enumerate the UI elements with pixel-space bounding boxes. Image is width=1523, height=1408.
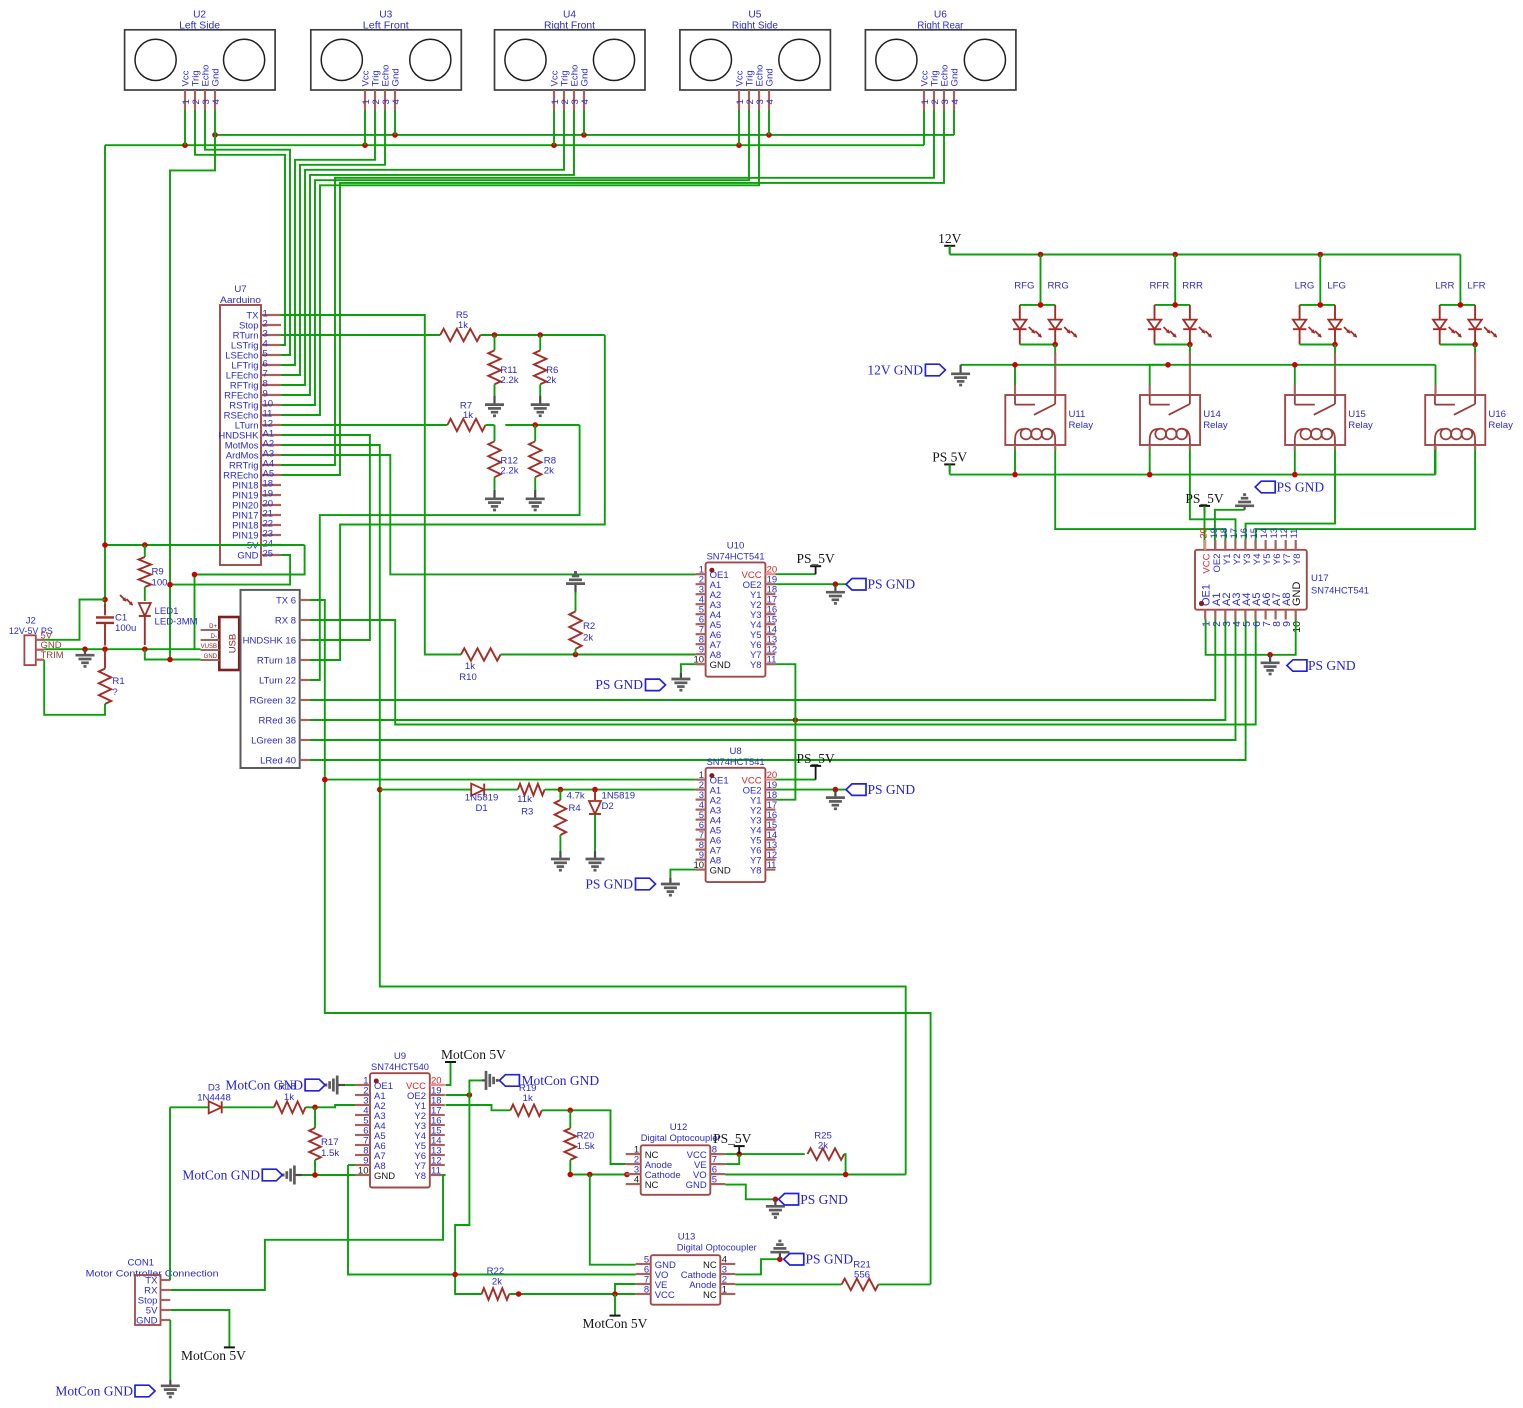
LED LFG [1328,305,1357,345]
ground below R6 [531,396,550,416]
junction LED bottom U11 [1052,342,1058,348]
wire U6 Trig->RRTrig [281,110,934,465]
svg-text:GND: GND [686,1180,707,1191]
wire R21 right to riser [878,1283,930,1285]
diode D2 1N5819 [589,790,635,851]
flag PS GND at U13 [784,1252,854,1267]
wire R7 right lead down to R12 [486,425,495,441]
wire LED top bar U11 [1020,304,1055,306]
svg-text:U16: U16 [1488,409,1506,420]
resistor R8 2k [529,425,556,490]
svg-text:1N4448: 1N4448 [197,1093,231,1104]
LED LFR [1468,305,1497,345]
LED pair labels RFR/RRR [1149,281,1203,292]
junction U10.OE2 [833,581,839,587]
LED pair labels LRR/LFR [1435,281,1485,292]
supply MotCon 5V at U13 [583,1316,648,1332]
svg-text:C1: C1 [115,613,127,624]
svg-text:PS_5V: PS_5V [1185,491,1224,506]
svg-text:10: 10 [358,1166,369,1177]
wire TX6 chain to R21 riser [310,600,931,1284]
wire U15 coil left pin to PS5V rail [1294,445,1296,475]
flag PS GND at U10.OE2 [846,577,915,592]
wire U13.VCC row R22 [455,1293,482,1295]
svg-text:Gnd: Gnd [580,68,591,86]
svg-text:2.2k: 2.2k [500,375,518,386]
junction R17 bottom [312,1172,318,1178]
resistor R25 2k [808,1131,845,1160]
ground below R11 [485,396,504,416]
junction U8.OE2 [833,787,839,793]
junction dots Vcc rail [182,142,742,148]
svg-text:RX 8: RX 8 [275,616,296,627]
wire U14 switch pin to 12VGND [1150,365,1168,395]
wire PS 5V rail [950,445,1436,475]
junction U9.OE2 [467,1092,473,1098]
svg-text:25: 25 [263,549,274,560]
svg-text:D+: D+ [209,624,217,630]
svg-text:8: 8 [644,1285,649,1296]
wire U4 Gnd drop [583,110,585,135]
wire LED bottom bar U15 [1300,344,1335,346]
svg-text:U11: U11 [1069,409,1086,420]
wire U3 Vcc drop [364,110,366,145]
ground below CON1.GND [161,1380,180,1397]
wire U7.GND to sensor-gnd column [170,555,290,585]
svg-text:100u: 100u [115,623,136,634]
wire Vcc rail sensors [105,144,924,146]
svg-text:LED-3MM: LED-3MM [155,617,198,628]
svg-text:U4: U4 [563,10,576,21]
svg-text:D-: D- [211,634,217,640]
wire U7.MotMos chain to U12 net [281,445,906,1175]
resistor R21 556 [842,1259,879,1290]
svg-text:1k: 1k [523,1093,533,1104]
svg-text:GND: GND [237,551,258,562]
svg-text:NC: NC [703,1290,717,1301]
junction R25/VO [843,1172,849,1178]
wire LED top bar U15 [1300,304,1335,306]
wire usb gnd row [145,649,201,659]
junction LED bottom U15 [1332,342,1338,348]
svg-text:U12: U12 [670,1122,688,1133]
flag MotCon GND at CON1 [55,1384,155,1399]
junction R17 top [312,1105,318,1111]
junction U14 gnd rail [1165,362,1171,368]
wire U10.OE2 to gnd [775,583,846,585]
svg-text:NC: NC [645,1180,659,1191]
wire J2.5V jog [44,600,105,640]
svg-text:MotCon 5V: MotCon 5V [441,1047,506,1062]
junction U17 gnd [1267,652,1273,658]
svg-text:U5: U5 [748,10,761,21]
diode D3 1N4448 [197,1083,231,1114]
junction GND column [167,582,173,588]
junction U15 gnd rail [1292,362,1298,368]
wire 12V rail [950,246,1461,255]
svg-text:R18: R18 [278,1082,296,1093]
svg-text:Relay: Relay [1488,420,1513,431]
resistor R19 1k [510,1083,542,1116]
wire U5 Echo->RSEcho [281,110,759,415]
svg-text:CON1: CON1 [127,1258,154,1269]
wire U9.OE2 net [446,1094,470,1096]
svg-text:PS GND: PS GND [1308,658,1356,673]
sideways ground U9.OE1 [326,1076,345,1095]
flag PS GND below U17 [1287,658,1356,673]
resistor R20 1.5k [565,1110,595,1174]
svg-text:4: 4 [950,99,961,105]
junction sensor-gnd column [167,657,173,663]
svg-text:2.2k: 2.2k [500,466,518,477]
svg-text:PS GND: PS GND [868,782,916,797]
svg-text:R4: R4 [569,803,582,814]
wire U6 Echo->RREcho [281,110,944,475]
wire U9.A8 down to U13.VO row [348,1165,636,1275]
svg-text:LRG: LRG [1295,281,1315,292]
wire GND row J2 [44,648,200,650]
svg-text:U7: U7 [234,284,246,295]
wire LED cathode to relay U16 [1474,345,1476,396]
svg-text:D2: D2 [602,801,614,812]
svg-text:D1: D1 [475,803,487,814]
wire U5 Gnd drop [768,110,770,135]
wire U12.VCC to PS_5V [725,1153,805,1155]
wire U9.GND row [302,1174,355,1176]
wire U8.OE2 right [775,789,846,791]
junction PS5V rail [1012,472,1297,478]
IC U9 SN74HCT540 [355,1051,445,1187]
junction MotCon5V stem [612,1291,618,1297]
svg-text:2k: 2k [492,1277,502,1288]
svg-text:SN74HCT541: SN74HCT541 [1311,586,1369,597]
svg-text:LED1: LED1 [155,606,179,617]
wire LTurn net to LTurn22 [310,425,580,680]
flag 12V GND [867,363,945,378]
LED LRR [1433,305,1462,345]
svg-text:R3: R3 [521,807,533,818]
wire U13.VE jog [615,1284,636,1294]
wire R25 to VO row [844,1154,845,1174]
ultrasonic sensor U4 (Right Front) [495,10,646,111]
svg-text:U15: U15 [1348,409,1366,420]
relay U14 [1140,395,1228,445]
junction R22 right [516,1291,522,1297]
wire U9.OE2 to sideways gnd [469,1080,482,1095]
ground below D2 [586,851,605,870]
supply PS_5V at U12 [713,1131,752,1154]
capacitor C1 100u [96,604,136,646]
wire Vcc rail left drop (to x105 column) [104,145,106,607]
wire 12V drop to RFG/RRG [1040,255,1042,305]
svg-text:PS GND: PS GND [800,1192,848,1207]
svg-text:12V GND: 12V GND [867,363,923,378]
wire U4 Vcc drop [553,110,555,145]
svg-text:RFR: RFR [1149,281,1169,292]
svg-text:RRR: RRR [1182,281,1203,292]
wire R10 to U10.A8 [501,654,696,656]
wire U3 Echo->LFEcho [281,110,385,375]
junction LED top U16 [1458,302,1464,308]
svg-text:4: 4 [634,1175,639,1186]
resistor R11 2.2k [488,335,518,396]
junction C1/J2 5V [102,597,108,603]
wire U4 Echo->RFEcho [281,110,574,395]
ground above R2 (inverted) [566,572,585,592]
wire U12.VO row right [725,1174,905,1176]
svg-text:MotCon 5V: MotCon 5V [181,1348,246,1363]
flag PS GND at U12 [779,1192,848,1207]
junction U13.VO row [452,1272,458,1278]
supply PS_5V at U10 [796,551,835,574]
svg-text:556: 556 [854,1270,870,1281]
svg-text:LRR: LRR [1435,281,1454,292]
svg-text:PS 5V: PS 5V [932,449,967,464]
svg-text:PS GND: PS GND [806,1252,854,1267]
junction 5V/R9 [142,542,148,548]
resistor R10 1k [459,648,500,683]
junction LED bottom U14 [1187,342,1193,348]
wire VO branch to U13.GND [590,1175,636,1265]
svg-text:R1: R1 [112,676,124,687]
IC U13 Digital Optocoupler [636,1232,758,1305]
LED RFR [1148,305,1177,345]
supply PS 5V rail [932,449,967,472]
ground below U8.GND [661,878,680,895]
ultrasonic sensor U3 (Left Front) [311,10,462,111]
wire U2 Gnd drop + route to USB gnd [170,110,215,660]
flag MotCon GND at U9.OE2 [499,1073,599,1088]
wire R18 right + jog to U9.A2 [306,1105,356,1107]
svg-text:U2: U2 [193,10,206,21]
svg-text:1N5819: 1N5819 [465,792,499,803]
svg-text:RFG: RFG [1014,281,1034,292]
wire R22 to U13.VCC [509,1293,636,1295]
wire U15 switch pin to 12VGND [1294,365,1296,395]
svg-text:5: 5 [712,1175,717,1186]
wire U10.GND to ground [681,664,696,673]
svg-text:4: 4 [391,99,402,105]
wire MotCon5V stem U13 [614,1294,616,1316]
ground below R4 [551,851,570,870]
svg-text:Relay: Relay [1348,420,1373,431]
wire U11 switch pin to 12VGND [1014,365,1016,395]
junction R8 top [532,422,538,428]
svg-text:LGreen 38: LGreen 38 [251,736,296,747]
svg-text:4: 4 [580,99,591,105]
junction U12 gnd [773,1197,779,1203]
wire U6 Gnd drop [953,110,955,135]
svg-text:VCC: VCC [655,1290,675,1301]
wire U16 coil left pin to PS5V rail [1434,445,1436,475]
ultrasonic sensor U2 (Left Side) [125,10,276,111]
junction gnd row [82,646,147,652]
wire LGreen38 to U17.A3 [310,620,1236,741]
svg-text:GND: GND [204,654,218,660]
wire U13.Cathode to PS GND [735,1259,780,1274]
diode D1 1N5819 [465,784,499,814]
relay U16 [1425,395,1513,445]
wire U11 coil to U17.Y1(18) [1055,445,1225,550]
sideways ground U9.OE2 [482,1071,497,1090]
svg-text:MotCon GND: MotCon GND [55,1384,133,1399]
junction LED bottom U16 [1472,342,1478,348]
USB connector plug [201,617,240,670]
junction LED top U14 [1172,302,1178,308]
wire U7.RTurn to R5 [281,334,440,336]
wire U7.LTurn to R7 [281,424,447,426]
svg-text:4.7k: 4.7k [567,791,585,802]
svg-text:1k: 1k [458,320,468,331]
ultrasonic sensor U5 (Right Side) [680,10,831,111]
junction LED top U15 [1318,302,1324,308]
resistor R12 2.2k [488,441,518,490]
wire CON1.TX up to D3 row [169,1107,171,1280]
wire U10.VCC to PS_5V [775,573,815,575]
resistor R17 1.5k [309,1107,339,1175]
flag MotCon GND at U9.GND [182,1168,282,1183]
svg-text:1k: 1k [465,661,475,672]
svg-text:PS GND: PS GND [868,577,916,592]
wire U9.VCC to MotCon5V [446,1062,451,1085]
svg-text:2k: 2k [583,633,593,644]
svg-text:GND: GND [374,1171,395,1182]
ground below U8.OE2 [826,790,845,809]
flag PS GND at U8.GND [585,877,655,892]
svg-text:SN74HCT541: SN74HCT541 [707,551,765,562]
wire U8.GND to ground [670,870,695,878]
svg-text:?: ? [112,687,117,698]
connector J2 12V-5V PS [9,616,64,666]
wire U2 Echo->LSEcho [205,110,290,355]
svg-text:GND: GND [1291,582,1303,607]
wire 5V jog to VUSB [195,545,305,650]
IC U8 SN74HCT541 [694,746,778,882]
wire U5 Vcc drop [738,110,740,145]
resistor R4 4.7k [555,790,585,851]
resistor R7 1k [447,401,485,432]
svg-text:U9: U9 [394,1051,406,1062]
wire U9.A8 column [348,1164,355,1166]
svg-text:1: 1 [722,1285,727,1296]
junction dots Gnd rail [212,132,772,138]
junction U11 gnd rail [1012,362,1018,368]
svg-text:PS GND: PS GND [595,677,643,692]
wire U17.OE2 to ground [1215,510,1245,550]
resistor R18 1k [274,1082,306,1114]
svg-text:11: 11 [431,1166,441,1177]
wire LED top bar U14 [1155,304,1190,306]
svg-text:Gnd: Gnd [765,68,776,86]
wire U8.VCC to PS_5V [775,779,815,781]
supply MotCon 5V at CON1 [181,1347,246,1363]
svg-text:PS_5V: PS_5V [796,751,835,766]
supply 12V [938,231,962,254]
svg-text:Relay: Relay [1203,420,1228,431]
wire R19 to U12.Anode [542,1110,626,1164]
wire U9.OE1 to ground [345,1084,355,1086]
wire U12.VE tie [725,1154,739,1164]
svg-text:GND: GND [710,660,731,671]
wire LED bottom bar U11 [1020,344,1055,346]
wire R3 to U8.A1 [545,789,696,791]
svg-text:11: 11 [1289,529,1300,539]
wire LED cathode to relay U15 [1334,345,1336,396]
svg-text:Gnd: Gnd [391,68,402,86]
wire 12V GND rail [961,364,1436,366]
wire U16 coil to U17.Y4(15) [1256,445,1475,550]
svg-text:TRIM: TRIM [41,650,64,661]
LED pair labels LRG/LFG [1295,281,1346,292]
flag PS GND at U8.OE2 [846,782,915,797]
ground below R12 [485,490,504,510]
connector CON1 Motor Controller Connection [86,1258,219,1327]
wire LRed40 to U17.A4 [310,620,1246,761]
sideways ground U9.GND [283,1166,302,1185]
wire CON1.5V to MotCon5V [170,1310,229,1347]
wire U7.ArdMos to U10.OE1 [281,455,696,574]
svg-text:11k: 11k [517,794,532,805]
svg-text:R2: R2 [583,621,595,632]
junction VO row branch [587,1172,593,1178]
wire R5R6 net to RTurn18 [310,335,605,660]
resistor R22 2k [482,1266,510,1300]
wire U7.TX to R10 [281,315,461,655]
resistor R6 2k [534,335,558,396]
wire LED bottom bar U16 [1440,344,1475,346]
wire U7.5V row to left column [105,544,305,546]
svg-text:Relay: Relay [1069,420,1094,431]
junction LED top U11 [1038,302,1044,308]
svg-text:R17: R17 [321,1137,339,1148]
ground below U12 gnd [766,1199,785,1217]
svg-text:10: 10 [1291,621,1303,633]
svg-text:4: 4 [211,99,222,105]
wire U4 Trig->RFTrig [281,110,564,385]
svg-text:R20: R20 [577,1131,595,1142]
wire U14 coil to U17.Y2(17) [1190,445,1236,550]
wire LED cathode to relay U14 [1189,345,1191,396]
supply MotCon 5V at U9 [441,1047,506,1062]
junction R2/R10 [573,652,579,658]
svg-text:U14: U14 [1203,409,1221,420]
svg-text:PS_5V: PS_5V [713,1131,752,1146]
junction R20 top [568,1108,574,1114]
wire U2 Trig->LSTrig [195,110,285,345]
svg-text:4: 4 [765,99,776,105]
wire 12V drop to LRG/LFG [1319,255,1321,305]
wire D3 to R18 [223,1106,274,1108]
ground below U17 [1261,655,1280,674]
wire U2 Vcc drop [184,110,186,145]
junction U12.VCC [736,1151,742,1157]
LED pair labels RFG/RRG [1014,281,1069,292]
resistor R1 ? [99,649,125,704]
svg-text:2k: 2k [546,375,556,386]
relay U15 [1285,395,1373,445]
ground below J2 GND [76,649,95,666]
wire LED cathode to relay U11 [1054,345,1056,396]
ground below U10.OE2 [826,584,845,603]
ground below U10.GND [671,673,690,690]
junction MotMos/D1 row [377,787,383,793]
IC U7 Aarduino with pins 1-25 [218,284,281,565]
ground at U17.OE2 [1235,495,1254,510]
svg-text:LTurn 22: LTurn 22 [259,676,296,687]
ultrasonic sensor U6 (Right Rear) [865,10,1016,111]
wire Gnd rail sensors [215,134,954,136]
wire VO row (R20 bottom to U12.Cathode) [570,1174,625,1176]
